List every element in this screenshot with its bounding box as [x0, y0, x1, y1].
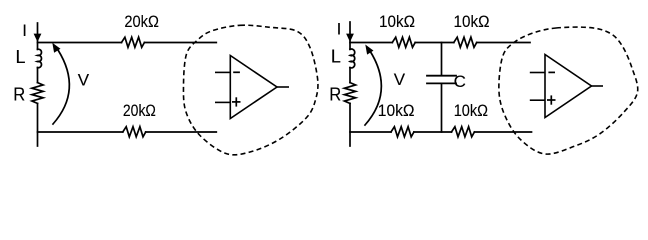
svg-text:V: V: [394, 70, 406, 89]
svg-text:R: R: [329, 85, 341, 105]
svg-text:L: L: [331, 46, 341, 66]
svg-text:I: I: [337, 19, 342, 38]
svg-text:10kΩ: 10kΩ: [454, 101, 488, 120]
svg-text:C: C: [454, 72, 466, 91]
svg-text:10kΩ: 10kΩ: [454, 12, 490, 31]
svg-text:V: V: [78, 70, 90, 89]
svg-text:I: I: [22, 21, 27, 40]
svg-text:20kΩ: 20kΩ: [123, 101, 156, 120]
svg-text:L: L: [16, 47, 26, 67]
svg-text:10kΩ: 10kΩ: [378, 101, 415, 120]
svg-text:20kΩ: 20kΩ: [124, 12, 158, 31]
svg-text:R: R: [13, 85, 25, 105]
svg-text:10kΩ: 10kΩ: [379, 12, 415, 31]
